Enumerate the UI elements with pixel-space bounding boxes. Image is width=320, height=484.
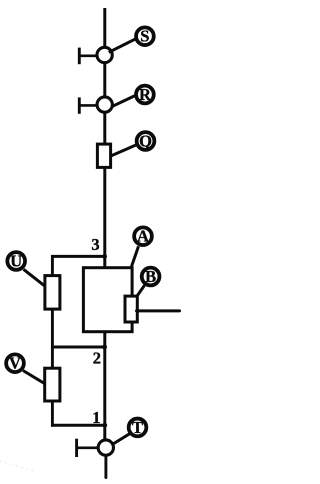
- junction node 2: [102, 345, 107, 350]
- wire stub right of B: [137, 309, 180, 312]
- svg-text:1: 1: [92, 408, 100, 427]
- wire diagonal to label R: [113, 95, 137, 106]
- wire node 1 horizontal: [51, 424, 106, 427]
- wire top feeder: [103, 8, 106, 47]
- svg-text:U: U: [10, 252, 22, 271]
- svg-text:A: A: [137, 227, 149, 246]
- wire R to Q: [103, 113, 106, 145]
- wire diagonal to label V: [23, 371, 45, 384]
- wire diagonal to label B: [136, 285, 145, 297]
- wire node 3 horizontal: [51, 255, 106, 258]
- wire left branch upper vertical: [51, 255, 54, 276]
- switch R node circle: [97, 97, 112, 112]
- svg-text:2: 2: [93, 349, 101, 368]
- wire Q to node 3 to box: [103, 167, 106, 268]
- label V: [6, 354, 24, 373]
- resistor B on box right edge: [125, 296, 137, 322]
- label A: [134, 227, 152, 246]
- svg-text:R: R: [139, 85, 152, 104]
- label S: [136, 27, 154, 46]
- svg-text:T: T: [132, 418, 143, 437]
- wire diagonal to label U: [24, 269, 45, 286]
- resistor V: [45, 368, 60, 401]
- wire left branch below V: [51, 402, 54, 427]
- wire S to R: [103, 63, 106, 97]
- wire below T: [104, 456, 107, 478]
- wire left branch between node 2 and V: [51, 346, 54, 368]
- terminal bar at T: [76, 439, 97, 457]
- wire node 2 horizontal: [51, 346, 106, 349]
- wire diagonal to label Q: [111, 145, 136, 156]
- terminal bar at S: [79, 48, 96, 65]
- switch T node circle: [98, 440, 113, 455]
- wire left branch between U and node 2: [51, 310, 54, 349]
- wire diagonal to label T: [113, 432, 133, 444]
- svg-text:V: V: [9, 354, 21, 373]
- svg-text:B: B: [145, 267, 156, 286]
- junction node 1: [102, 423, 107, 428]
- label T: [129, 418, 147, 437]
- transformer box: [83, 268, 132, 332]
- wire box bottom through node 2 and node 1 to switch T: [103, 332, 106, 440]
- svg-text:3: 3: [91, 235, 99, 254]
- label B: [142, 267, 160, 286]
- terminal bar at R: [79, 97, 96, 113]
- svg-text:Q: Q: [139, 132, 152, 151]
- wire diagonal to label S: [109, 39, 136, 53]
- resistor Q: [97, 144, 110, 167]
- junction node 3: [102, 254, 107, 259]
- label Q: [137, 132, 155, 151]
- switch S node circle: [97, 47, 112, 62]
- label U: [7, 252, 25, 271]
- label R: [136, 85, 154, 104]
- wire diagonal to label A: [132, 246, 139, 266]
- svg-text:S: S: [140, 27, 149, 46]
- faint scan artifact bottom left: [0, 461, 36, 472]
- resistor U: [45, 276, 60, 310]
